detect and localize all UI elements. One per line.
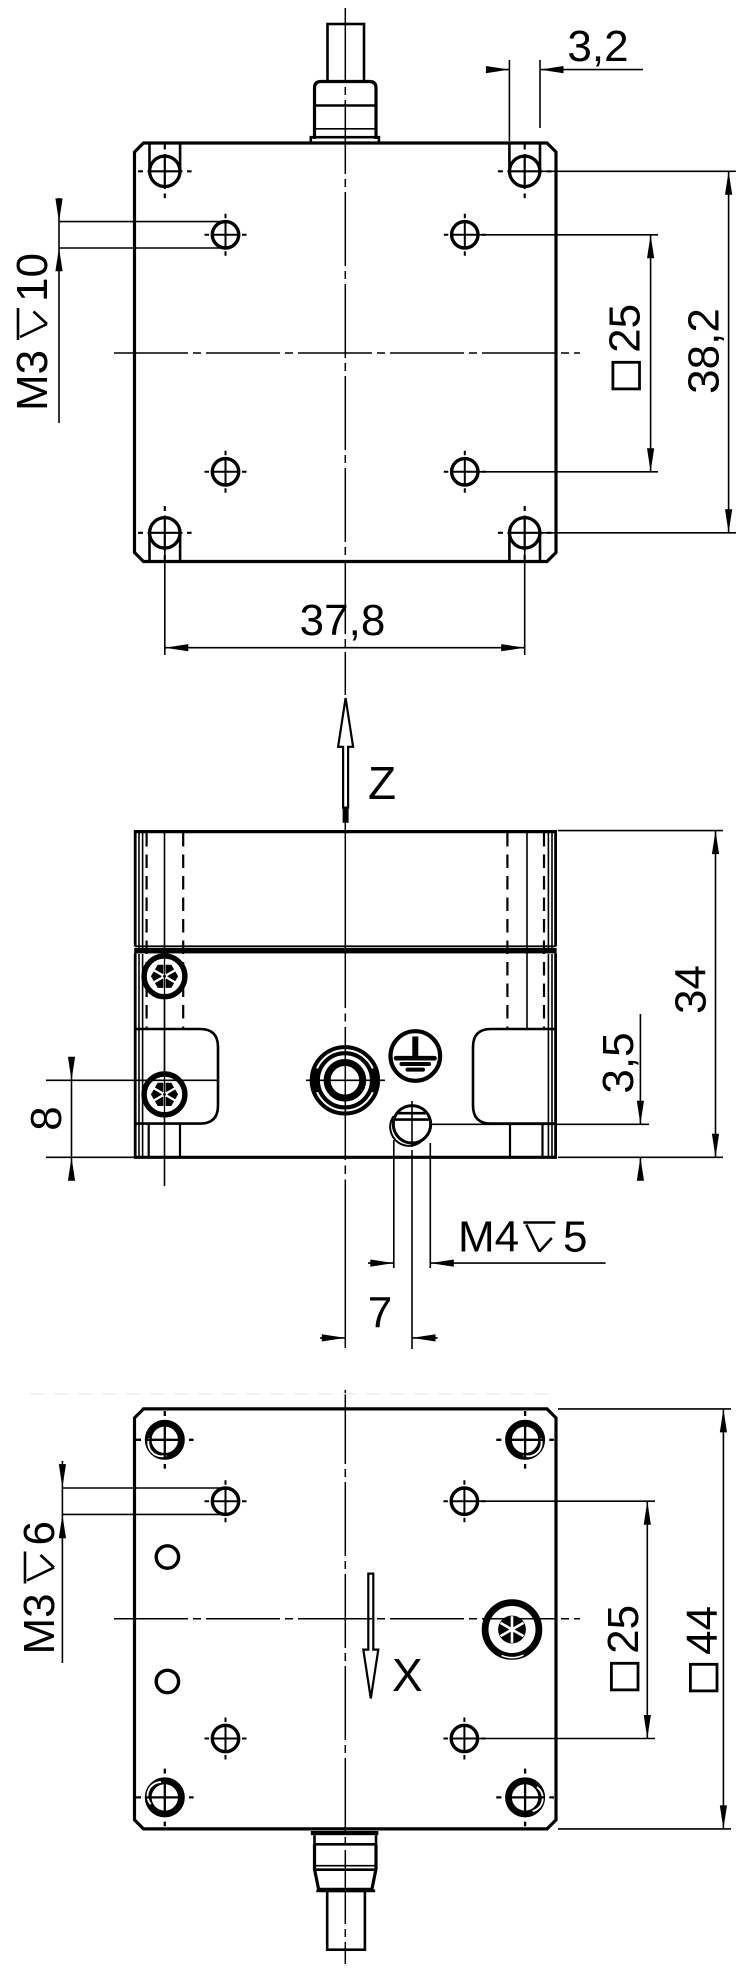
dimension 38,2: dimension line and arrows: [728, 171, 730, 533]
dimension 38,2: text: [680, 308, 729, 394]
pocket right: [473, 1029, 556, 1124]
dimension 3,5: text: [594, 1032, 643, 1093]
svg-text:M3: M3: [15, 1593, 64, 1654]
faint hidden line between views: [30, 1393, 552, 1395]
svg-text:8: 8: [22, 1106, 71, 1130]
corner screw top-right bottom view: [496, 1411, 554, 1469]
dimension 37,8: dimension line and arrows: [165, 647, 525, 649]
boss below pocket right: [509, 1124, 511, 1156]
svg-text:M4: M4: [458, 1213, 519, 1262]
dimension M3 depth 6: text: [15, 1521, 64, 1654]
M3 hole bottom-right: [444, 451, 486, 493]
corner screw bottom-right bottom view: [496, 1769, 554, 1827]
small hole upper left bottom view: [156, 1546, 178, 1568]
svg-text:37,8: 37,8: [300, 596, 386, 645]
dimension square25 top view: text: [601, 304, 650, 389]
dimension square25 top view: dimension line and arrows: [650, 235, 652, 472]
plate outline bottom view: [135, 1409, 557, 1829]
connector bottom: body line thin: [315, 1865, 377, 1867]
M3 hole top-left: [205, 214, 247, 256]
dimension 3,5: extension line: [430, 1123, 649, 1125]
svg-text:38,2: 38,2: [680, 308, 729, 394]
dimension 34: dimension line and arrows: [715, 831, 717, 1158]
M3 hole bottom-right bottom view: [443, 1718, 485, 1760]
dimension M4 depth 5: dimension line and arrows: [368, 1262, 394, 1264]
hidden hole dashed lines right: [506, 833, 508, 1029]
connector bottom: flange bar: [311, 1831, 379, 1835]
corner slot bottom-left: [138, 506, 192, 561]
body top section middle view: right edge: [554, 830, 557, 947]
dimension M3 depth 6: dimension line and arrows: [61, 1461, 63, 1663]
separation band: [134, 948, 556, 953]
dimension M3 depth 10: dimension line and arrows: [58, 198, 60, 423]
dimension 7: extension line right: [411, 1150, 413, 1349]
body top section middle view: left edge: [134, 830, 137, 947]
connector top: body line thin: [315, 128, 377, 130]
centerline vertical middle view: [344, 823, 346, 1348]
torx screw bottom view: [485, 1603, 539, 1658]
M3 hole bottom-left bottom view: [205, 1718, 247, 1760]
M3 hole top-right: [444, 214, 486, 256]
connector bottom: body line thick: [315, 1868, 377, 1871]
svg-text:5: 5: [563, 1213, 587, 1262]
dimension square25 bottom view: extension lines: [478, 1500, 655, 1502]
centerline vertical top view: [344, 8, 346, 695]
connector top: body line thick: [315, 104, 377, 107]
lower section inner edge lines left: [138, 954, 140, 1156]
corner screw bottom-left bottom view: [136, 1769, 194, 1827]
dimension M3 depth 10: text: [8, 253, 57, 411]
svg-text:25: 25: [601, 304, 650, 353]
ground symbol: [391, 1031, 441, 1081]
connector top: flange: [311, 137, 379, 143]
X axis arrow: [363, 1574, 378, 1699]
plate outline top view: [135, 143, 557, 562]
dimension square25 bottom view: text: [599, 1605, 648, 1690]
M3 hole bottom-left: [205, 451, 247, 493]
svg-text:34: 34: [667, 965, 716, 1014]
dimension 8: text: [22, 1106, 71, 1130]
dimension 8: extension lines: [46, 1079, 219, 1081]
screw axis line left: [164, 831, 166, 1186]
body lower section middle view: bottom edge: [134, 1156, 557, 1159]
socket screw upper left: [144, 956, 185, 997]
dimension 3,2: extension lines: [508, 60, 510, 141]
dimension square44: dimension line and arrows: [722, 1409, 724, 1829]
small hole lower left bottom view: [156, 1670, 178, 1692]
connector top: pin: [328, 24, 365, 82]
svg-text:44: 44: [678, 1606, 727, 1655]
connector bottom: pin: [327, 1891, 365, 1950]
dimension 34: text: [667, 965, 716, 1014]
dimension 8: dimension line and arrows: [71, 1057, 73, 1181]
svg-text:7: 7: [368, 1289, 392, 1338]
centerline horizontal bottom view: [114, 1618, 580, 1620]
corner slot top-left: [138, 144, 192, 198]
top section inner edge lines right: [551, 832, 553, 948]
screw axis overlay line: [164, 955, 166, 1118]
socket screw lower left: [144, 1074, 185, 1115]
corner slot bottom-right: [498, 506, 552, 561]
connector bottom: upper section: [315, 1835, 377, 1844]
dimension 3,2: dimension line and arrows: [486, 69, 509, 71]
dimension 34: extension lines: [558, 830, 723, 832]
corner screw top-left bottom view: [136, 1411, 194, 1469]
Z axis arrow: [338, 698, 353, 823]
dimension M4 depth 5: text: [458, 1213, 587, 1262]
centerline vertical bottom view: [344, 1390, 346, 1964]
dimension 38,2: extension lines: [540, 170, 736, 172]
M4 screw hole: [390, 1101, 431, 1147]
lower section inner edge lines right: [551, 954, 553, 1156]
dimension square44: extension lines: [558, 1408, 731, 1410]
body top section middle view: top edge: [134, 830, 557, 833]
boss below pocket left: [148, 1124, 150, 1156]
svg-text:25: 25: [599, 1605, 648, 1654]
corner slot top-right: [498, 144, 552, 198]
connector bottom: body: [315, 1844, 377, 1889]
pocket left: [135, 1029, 218, 1124]
M3 hole top-right bottom view: [443, 1480, 485, 1522]
dimension M4 depth 5: extension lines: [393, 1140, 395, 1268]
svg-text:10: 10: [8, 253, 57, 302]
svg-text:6: 6: [15, 1521, 64, 1545]
body lower section middle view: right edge: [554, 953, 557, 1158]
svg-text:3,2: 3,2: [567, 22, 628, 71]
dimension 7: dimension line and arrows: [320, 1337, 345, 1339]
svg-text:Z: Z: [368, 757, 396, 809]
dimension 37,8: extension lines: [164, 548, 166, 655]
top section inner edge lines left: [138, 832, 140, 948]
body lower section middle view: left edge: [134, 953, 137, 1158]
centerline horizontal top view: [114, 352, 580, 354]
dimension square25 bottom view: dimension line and arrows: [646, 1501, 648, 1738]
connector top: body: [315, 82, 377, 140]
hidden hole dashed lines left: [146, 833, 148, 1029]
dimension 3,5: dimension line and arrows: [639, 1014, 641, 1124]
connector circles front: [306, 1047, 385, 1113]
dimension square25 top view: extension lines: [479, 234, 658, 236]
body top section middle view: bottom thin edge: [135, 945, 555, 947]
svg-text:M3: M3: [8, 350, 57, 411]
svg-text:X: X: [392, 1649, 423, 1701]
screw axis line right: [526, 831, 528, 1029]
M3 hole top-left bottom view: [205, 1480, 247, 1522]
dimension M3 depth 6: leader lines: [62, 1487, 225, 1489]
dimension square44: text: [678, 1606, 727, 1691]
dimension M3 depth 10: leader lines: [59, 221, 225, 223]
svg-text:3,5: 3,5: [594, 1032, 643, 1093]
